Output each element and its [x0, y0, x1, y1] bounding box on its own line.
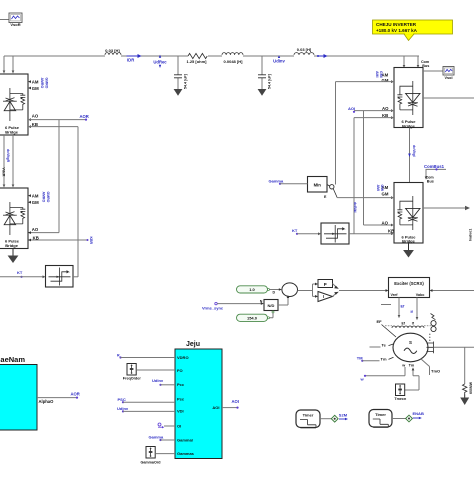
Timer 2 [369, 410, 392, 428]
node KT (inverter) [292, 228, 298, 235]
svg-text:HaeNam: HaeNam [0, 355, 25, 364]
wire Gamma to Min [280, 183, 308, 185]
svg-text:+180.0 kV 1.667 kA: +180.0 kV 1.667 kA [376, 28, 418, 33]
svg-text:Bridge: Bridge [402, 123, 415, 128]
svg-text:GM: GM [382, 192, 389, 197]
Timer 1 [296, 410, 320, 428]
6 Pulse Bridge I1 [394, 68, 423, 129]
svg-text:Gamma: Gamma [269, 178, 284, 183]
svg-text:KT: KT [17, 270, 23, 275]
node w [360, 375, 367, 382]
node TM [357, 355, 364, 362]
machine bottom pins w Tm [401, 363, 415, 367]
svg-text:GMI: GMI [380, 185, 384, 192]
wire Pcc [161, 384, 176, 386]
svg-text:KB: KB [32, 122, 38, 127]
voltmeter VsoR [9, 13, 22, 27]
voltmeter label UdRec [153, 55, 167, 68]
wire OI [164, 425, 175, 427]
svg-text:54.4 [uF]: 54.4 [uF] [268, 74, 272, 89]
diamond node [406, 415, 413, 422]
P block [318, 280, 333, 288]
slider FreqOrder [123, 364, 142, 381]
wire top stubs into bridge R1 [4, 56, 13, 72]
node ComBus1 [424, 164, 446, 180]
svg-text:AOI: AOI [212, 405, 219, 410]
svg-text:AMRO: AMRO [40, 78, 44, 89]
svg-text:FreqOrder: FreqOrder [123, 376, 142, 380]
svg-text:AMI: AMI [375, 71, 379, 77]
pin Tm [362, 356, 393, 361]
svg-text:D: D [273, 291, 276, 295]
svg-text:Bridge: Bridge [5, 129, 18, 134]
svg-text:CHEJU INVERTER: CHEJU INVERTER [376, 22, 417, 27]
node AOI (Jeju output) [232, 399, 239, 409]
node Vrms_sync [202, 302, 224, 310]
wire machine output [434, 346, 474, 348]
DC link wires R1-R2 [4, 135, 13, 186]
wire top stubs into bridge I1 [404, 56, 418, 66]
svg-text:GM: GM [32, 86, 39, 91]
svg-text:AO: AO [32, 227, 39, 232]
svg-text:ENAB: ENAB [413, 411, 424, 416]
svg-text:IDR: IDR [127, 58, 134, 63]
6 Pulse Bridge R2 [0, 188, 28, 249]
svg-text:AOR: AOR [80, 114, 89, 119]
svg-text:FO: FO [177, 368, 183, 373]
svg-text:S: S [409, 340, 412, 345]
svg-text:P: P [324, 282, 327, 287]
wire KB1 [354, 118, 394, 234]
wire 1.0 to summer [270, 289, 280, 291]
node PSC [118, 397, 126, 404]
wire KT to comparator [297, 233, 319, 235]
svg-text:Jeju: Jeju [186, 341, 200, 348]
svg-text:KB: KB [33, 236, 39, 241]
svg-text:TmO: TmO [431, 369, 440, 374]
node KT (rectifier) [17, 270, 23, 278]
summing junction [282, 283, 298, 297]
HaeNam block [0, 355, 37, 430]
svg-text:ComBus1: ComBus1 [424, 164, 445, 169]
svg-text:GM: GM [382, 78, 389, 83]
svg-text:VdcR: VdcR [1, 168, 5, 177]
svg-text:600MW: 600MW [469, 381, 473, 394]
6 Pulse Bridge I2 [394, 183, 423, 244]
svg-text:Tmecn: Tmecn [394, 397, 407, 401]
wire AOR [28, 119, 86, 121]
svg-text:0.0048 [H]: 0.0048 [H] [224, 59, 244, 64]
node UdInv (Pcc) [152, 378, 164, 386]
svg-text:w: w [401, 363, 405, 367]
svg-text:S2M: S2M [339, 413, 348, 418]
node AOR (HaeNam output) [71, 392, 80, 399]
svg-text:1.25 [ohm]: 1.25 [ohm] [186, 59, 207, 64]
wire w output [365, 367, 405, 376]
ammeter label IDI [317, 54, 328, 58]
wire to VsoR [0, 19, 9, 21]
svg-text:Tm: Tm [409, 363, 415, 367]
wire summer output [298, 284, 316, 296]
svg-text:Te: Te [382, 342, 387, 347]
svg-text:AO: AO [32, 114, 39, 119]
svg-text:154.0: 154.0 [247, 316, 258, 321]
constant pill 154.0 [237, 314, 270, 321]
wire N/D output to summer [278, 298, 288, 306]
pin TmO [421, 359, 441, 376]
pin AlphaO [37, 398, 77, 404]
svg-text:UdRec: UdRec [153, 60, 167, 65]
wire KB bus vertical [28, 127, 87, 277]
svg-text:Tm: Tm [381, 356, 387, 361]
Jeju block [175, 341, 222, 459]
voltmeter label UdInv [273, 55, 285, 63]
svg-text:AOR: AOR [71, 392, 80, 397]
pin Te [370, 342, 395, 347]
wire GM1 vertical [336, 82, 395, 185]
Min block [308, 177, 338, 199]
svg-text:Vabc: Vabc [416, 293, 425, 297]
load resistor branch [460, 347, 473, 405]
svg-text:GammaI: GammaI [177, 437, 193, 442]
main DC wire (rectifier to inverter) [4, 55, 419, 57]
Exciter (SCRX) [389, 278, 430, 298]
bridge I2 pins [382, 185, 395, 235]
field winding [385, 321, 431, 328]
wire Vref stub [381, 304, 391, 306]
svg-text:UdInv: UdInv [273, 59, 285, 64]
svg-text:I: I [323, 294, 324, 299]
svg-text:GMRO: GMRO [46, 192, 50, 203]
wire exciter right input [433, 290, 474, 292]
node KBR rotated [87, 237, 93, 245]
wire timer2 output [392, 418, 406, 420]
svg-text:TM: TM [357, 355, 363, 360]
DC link wire I1-I2 [409, 128, 411, 183]
svg-text:Gamma: Gamma [149, 434, 164, 439]
svg-text:AMRO: AMRO [41, 192, 45, 203]
wire bridge I2 output [423, 207, 465, 209]
svg-text:Timer: Timer [303, 412, 314, 417]
svg-text:UdInv: UdInv [117, 406, 129, 411]
wire comparator output to KB2 [349, 233, 394, 235]
wire KT input [0, 276, 43, 278]
svg-text:Psc: Psc [177, 397, 185, 402]
wire Vrms_sync to N [217, 303, 261, 305]
svg-text:UdInv: UdInv [152, 378, 164, 383]
node Gamma [269, 178, 284, 185]
svg-text:OI: OI [177, 423, 181, 428]
svg-text:Bridge: Bridge [402, 239, 415, 244]
svg-text:PSC: PSC [118, 397, 126, 402]
svg-text:VsoR: VsoR [10, 22, 20, 27]
svg-text:GMRO: GMRO [45, 78, 49, 89]
svg-text:KT: KT [292, 228, 298, 233]
yellow callout CHEJU INVERTER [373, 20, 453, 41]
wire PI to exciter [339, 290, 386, 292]
node S2M [339, 413, 348, 421]
svg-text:AMI: AMI [376, 185, 380, 191]
svg-text:Ivalve1: Ivalve1 [469, 229, 473, 241]
svg-text:0.03 [H]: 0.03 [H] [297, 47, 312, 52]
wire GammaI [161, 439, 176, 441]
wire Tm input with arrow [405, 367, 419, 390]
svg-text:VDI: VDI [177, 409, 184, 414]
wire to capacitor 2 [261, 56, 263, 89]
svg-text:GMI: GMI [379, 71, 383, 78]
ground [174, 89, 183, 96]
svg-text:EF: EF [377, 319, 383, 324]
svg-text:N/D: N/D [268, 303, 275, 308]
ground below I2 [403, 243, 414, 258]
node UdInv (VDI) [117, 406, 129, 413]
slider GammaOrd [140, 447, 161, 465]
wire 154.0 to D input [270, 313, 274, 318]
wire Gammas [155, 453, 175, 455]
wire VDI [123, 410, 175, 412]
wire timer1 output [320, 418, 331, 420]
svg-text:AM: AM [32, 193, 39, 198]
svg-text:dcVltgR: dcVltgR [6, 149, 10, 163]
6 Pulse Bridge R1 [0, 74, 28, 135]
node OI input [158, 423, 164, 428]
slider Tmecn [394, 384, 407, 401]
svg-text:Timer: Timer [375, 412, 386, 417]
wire bridge I1 output [423, 97, 474, 99]
PI output merge [333, 284, 338, 297]
svg-text:VDRO: VDRO [177, 355, 189, 360]
svg-text:GammaOrd: GammaOrd [140, 460, 161, 464]
wire VDRO [121, 357, 176, 359]
comparator block (inverter) [321, 223, 349, 244]
node ENAB [413, 411, 424, 419]
wire If down [411, 298, 419, 321]
capacitor 54.4 uF [258, 75, 266, 78]
svg-text:dcBlkI: dcBlkI [353, 202, 357, 213]
node VDRO input [117, 354, 122, 359]
current arrow on DC link [408, 154, 411, 158]
svg-text:dcVltgI: dcVltgI [412, 145, 416, 157]
ammeter label IDR [127, 54, 142, 63]
synchronous machine [393, 333, 428, 362]
svg-text:Min: Min [314, 182, 322, 187]
bridge R2 pins [28, 193, 39, 241]
bridge R1 pins [28, 79, 39, 128]
machine terminal [427, 342, 434, 354]
node AOI (bridge input) [348, 106, 355, 113]
svg-text:KBR: KBR [89, 237, 93, 245]
svg-text:AlphaO: AlphaO [39, 399, 55, 404]
node EF [377, 319, 397, 337]
wire Min output to GM2 [337, 197, 394, 199]
node AOR [80, 114, 89, 121]
constant pill 1.0 [237, 286, 270, 293]
instrument icon [429, 314, 436, 341]
svg-text:54.4 [uF]: 54.4 [uF] [184, 74, 188, 89]
I block [318, 292, 333, 302]
bridge I1 pins [382, 73, 395, 119]
svg-text:Vrms_sync: Vrms_sync [202, 306, 224, 311]
capacitor 54.4 uF [174, 75, 182, 78]
svg-text:Vref: Vref [391, 293, 399, 297]
svg-text:AOI: AOI [232, 399, 239, 404]
wire Ef down [398, 298, 405, 319]
diamond node [331, 415, 338, 422]
wire AO bus vertical [28, 120, 59, 233]
svg-text:Gammas: Gammas [177, 451, 195, 456]
wire FO [136, 369, 175, 371]
svg-text:Bus: Bus [427, 179, 434, 183]
svg-text:1.0: 1.0 [249, 287, 255, 292]
svg-text:Exciter (SCRX): Exciter (SCRX) [394, 281, 424, 286]
svg-text:AM: AM [32, 79, 39, 84]
voltmeter Vsol [423, 67, 454, 81]
wire AOI output [222, 407, 238, 409]
wire comparator output up to KB [73, 276, 78, 278]
wire to capacitor 1 [177, 56, 179, 89]
wire Psc [123, 401, 175, 403]
svg-text:Vsol: Vsol [444, 76, 452, 80]
comparator block (rectifier) [46, 266, 74, 288]
wire AO1 [354, 111, 394, 225]
ground below R2 [8, 249, 19, 264]
svg-text:Bridge: Bridge [5, 243, 18, 248]
divider N/D [260, 300, 278, 314]
ground [258, 89, 267, 96]
node Gamma (GammaI) [149, 434, 164, 441]
svg-text:Pcc: Pcc [177, 382, 185, 387]
svg-text:GM: GM [32, 200, 39, 205]
svg-text:0.03 [H]: 0.03 [H] [105, 48, 120, 53]
